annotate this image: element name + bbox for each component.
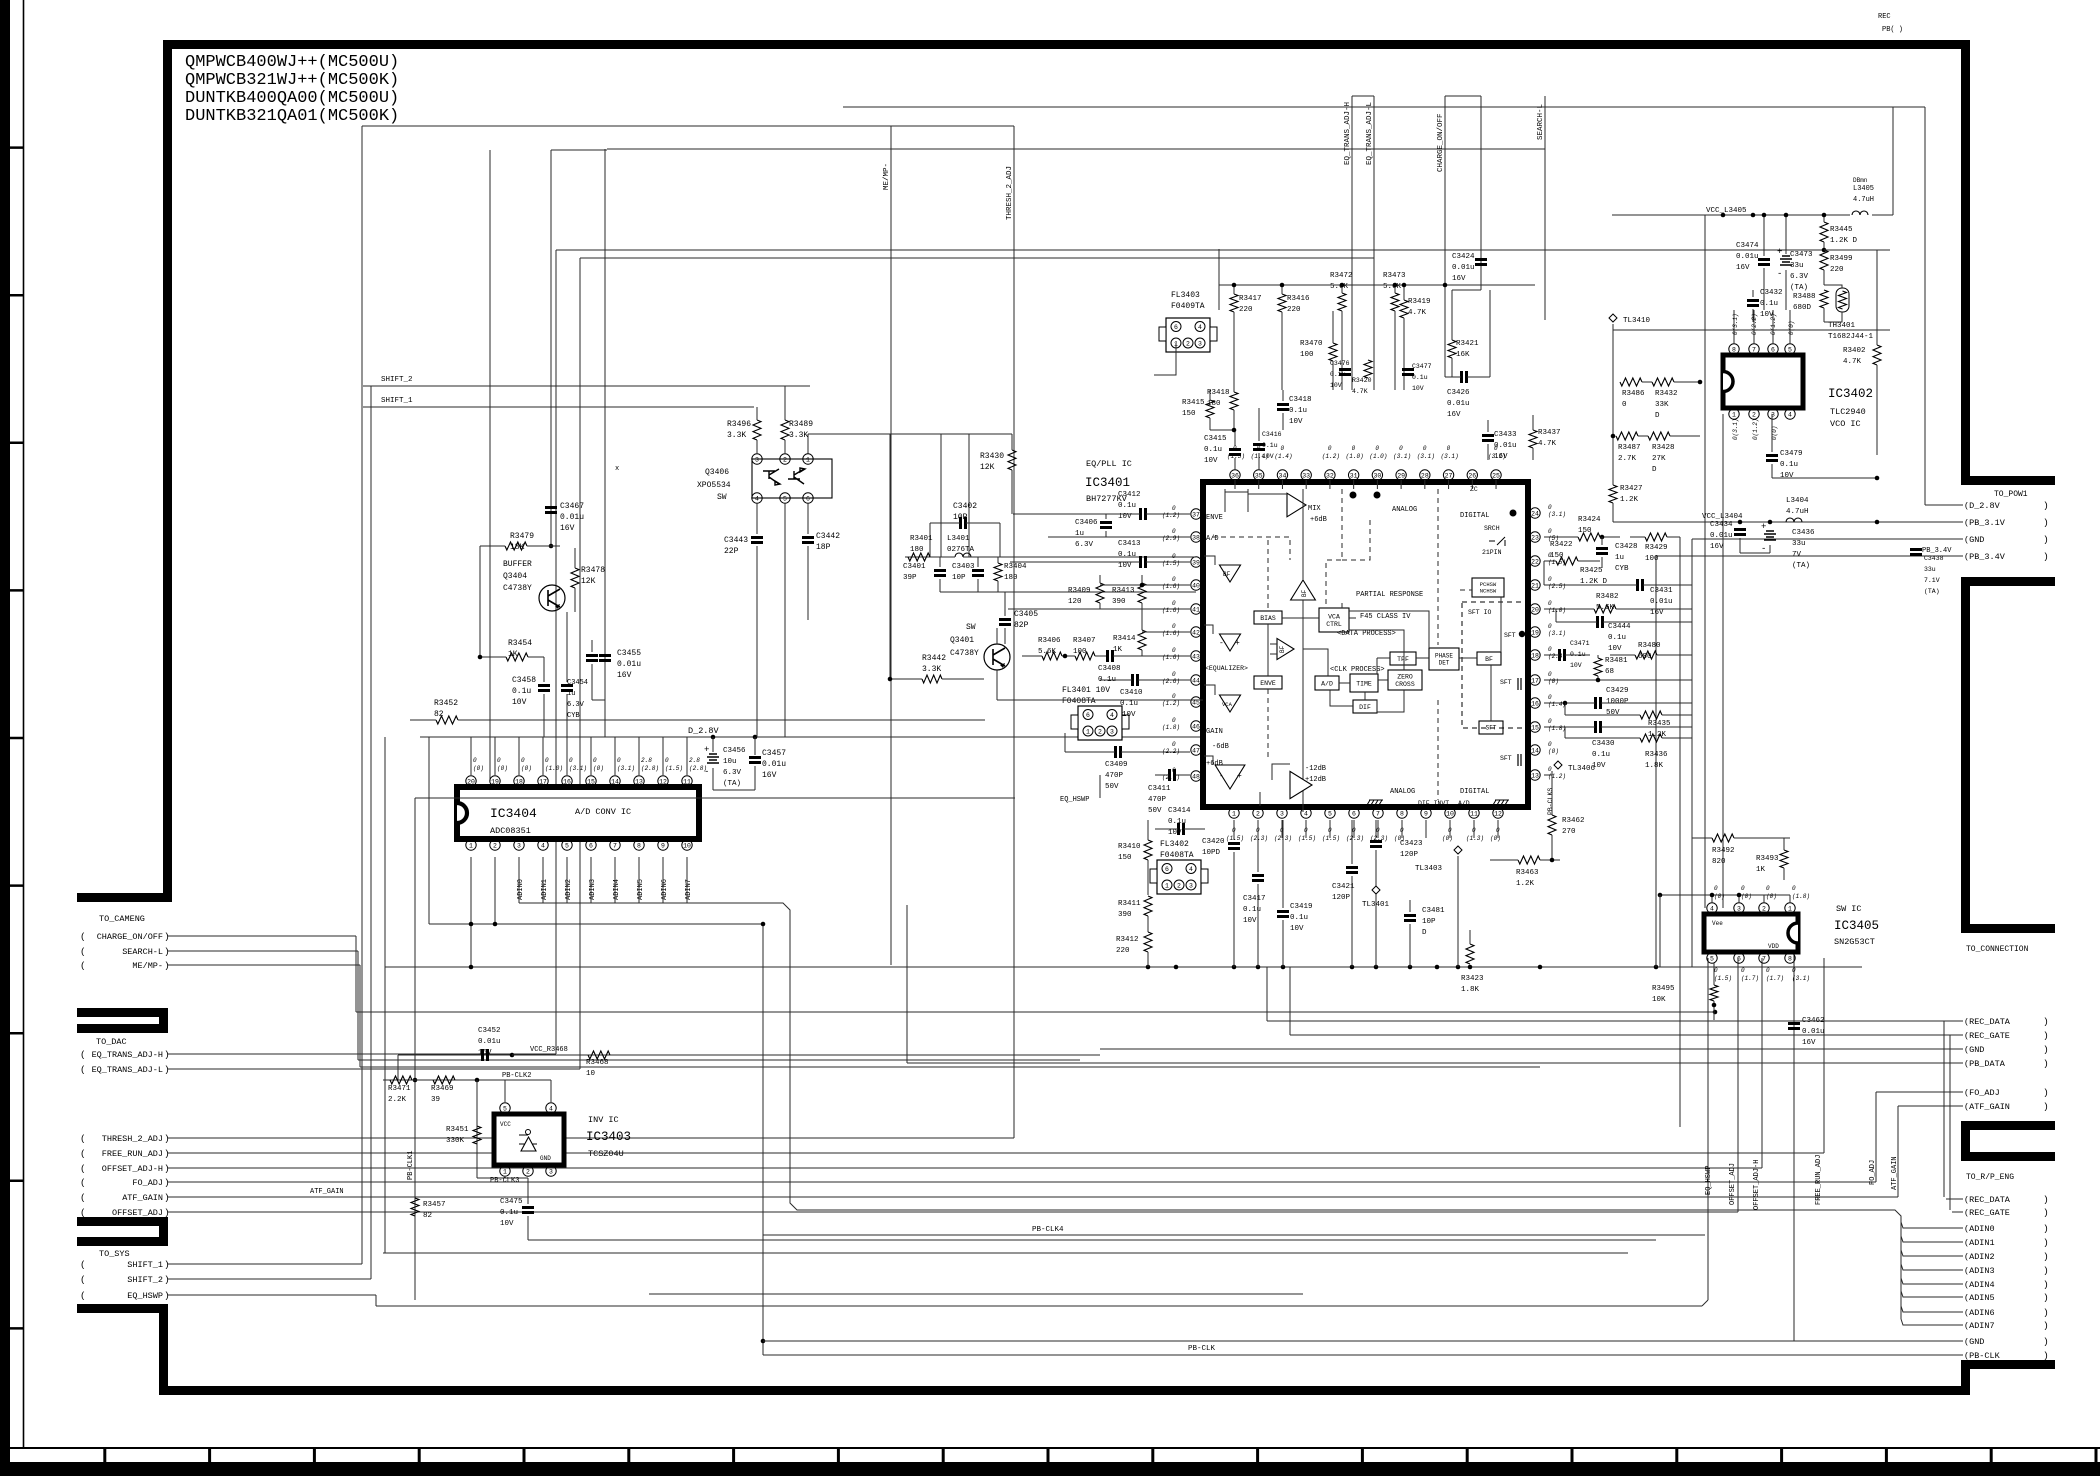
svg-text:SHIFT_1: SHIFT_1	[381, 397, 413, 405]
vertical SEARCH-L	[1544, 96, 1546, 320]
svg-text:16: 16	[563, 778, 571, 785]
svg-text:(PB-CLK: (PB-CLK	[1964, 1351, 2001, 1361]
resistor R3402	[1873, 345, 1881, 365]
svg-text:12: 12	[1494, 810, 1502, 817]
svg-text:10V: 10V	[1243, 917, 1257, 925]
svg-text:(PB_DATA: (PB_DATA	[1964, 1059, 2006, 1069]
svg-text:4: 4	[1189, 866, 1193, 873]
svg-text:0.01u: 0.01u	[1452, 264, 1475, 272]
svg-text:C3475: C3475	[500, 1198, 523, 1206]
svg-text:DIF INVT: DIF INVT	[1418, 800, 1449, 807]
svg-text:33u: 33u	[1790, 262, 1804, 270]
svg-text:16V: 16V	[1710, 543, 1724, 551]
svg-text:(0): (0)	[1490, 835, 1501, 842]
svg-text:DBmn: DBmn	[1853, 177, 1868, 184]
svg-text:): )	[2043, 1030, 2049, 1041]
svg-text:R3416: R3416	[1287, 295, 1310, 303]
capacitor C3409	[1116, 746, 1121, 758]
svg-text:180: 180	[1004, 574, 1018, 582]
IC3401 right pins 24..13	[1530, 508, 1540, 518]
resistor R3406	[1042, 652, 1062, 660]
svg-text:R3419: R3419	[1408, 298, 1431, 306]
loop wire y1060	[358, 1059, 1080, 1061]
svg-text:0: 0	[1172, 553, 1176, 560]
vertical CHARGE_ON/OFF	[1444, 96, 1446, 377]
svg-text:0.1u: 0.1u	[1330, 371, 1346, 378]
svg-text:SFT IO: SFT IO	[1468, 609, 1492, 616]
capacitor C3429	[1596, 697, 1601, 709]
svg-text:FL3403: FL3403	[1171, 291, 1200, 300]
svg-text:0(1.2): 0(1.2)	[1752, 418, 1759, 440]
svg-text:R3495: R3495	[1652, 985, 1675, 993]
wire SHIFT_1 top	[363, 406, 754, 408]
svg-text:0(1.2): 0(1.2)	[1770, 313, 1777, 335]
svg-text:ME/MP-: ME/MP-	[132, 961, 163, 971]
svg-text:0: 0	[1233, 445, 1237, 452]
svg-text:A/D: A/D	[1321, 680, 1333, 687]
resistor R3492	[1712, 834, 1734, 842]
svg-text:): )	[2043, 1016, 2049, 1027]
svg-text:5.6K: 5.6K	[1330, 283, 1349, 291]
svg-text:0: 0	[1172, 767, 1176, 774]
resistor R3454	[506, 653, 528, 661]
svg-text:44: 44	[1192, 677, 1200, 684]
svg-text:22: 22	[1531, 558, 1539, 565]
svg-text:0: 0	[593, 757, 597, 764]
svg-text:10: 10	[1446, 810, 1454, 817]
IC3403 pin wires	[504, 1080, 506, 1102]
svg-text:(2.5): (2.5)	[1548, 583, 1566, 590]
wire top run 3	[607, 148, 1545, 150]
svg-text:5: 5	[1710, 955, 1714, 962]
svg-text:0(0): 0(0)	[1788, 321, 1795, 335]
svg-text:C3462: C3462	[1802, 1017, 1825, 1025]
svg-text:ATF_GAIN: ATF_GAIN	[310, 1188, 344, 1196]
svg-text:220: 220	[1830, 266, 1844, 274]
svg-text:(1.5): (1.5)	[1548, 559, 1566, 566]
svg-text:CHARGE_ON/OFF: CHARGE_ON/OFF	[97, 932, 163, 942]
svg-text:0: 0	[1172, 600, 1176, 607]
svg-text:EQ_TRANS_ADJ-H: EQ_TRANS_ADJ-H	[1344, 102, 1352, 165]
svg-text:): )	[2043, 1101, 2049, 1112]
svg-text:(0): (0)	[1548, 748, 1559, 755]
svg-text:0: 0	[617, 757, 621, 764]
svg-text:50V: 50V	[1606, 709, 1620, 717]
resistor R3471	[390, 1076, 412, 1084]
capacitor C3458	[538, 686, 550, 691]
svg-text:R3425: R3425	[1580, 567, 1603, 575]
svg-text:16V: 16V	[560, 524, 575, 533]
svg-text:C3473: C3473	[1790, 251, 1813, 259]
svg-text:(1.0): (1.0)	[1369, 453, 1387, 460]
svg-text:(TA): (TA)	[723, 780, 741, 788]
svg-text:0: 0	[1172, 671, 1176, 678]
svg-text:IC3402: IC3402	[1828, 387, 1873, 401]
svg-text:7: 7	[1376, 810, 1380, 817]
svg-text:270: 270	[1562, 828, 1576, 836]
capacitor C3408	[1108, 650, 1113, 662]
svg-text:SW: SW	[966, 623, 976, 632]
svg-text:(1.8): (1.8)	[1792, 893, 1810, 900]
wire SHIFT_2 top	[363, 385, 810, 387]
vertical x605	[604, 149, 606, 737]
svg-text:2: 2	[783, 456, 787, 463]
svg-text:150: 150	[1118, 854, 1132, 862]
svg-text:R3432: R3432	[1655, 390, 1678, 398]
svg-text:R3423: R3423	[1461, 975, 1484, 983]
resistor R3486	[1620, 378, 1642, 386]
svg-text:0276TA: 0276TA	[947, 546, 975, 554]
svg-text:C3444: C3444	[1608, 623, 1631, 631]
resistor R3414	[1138, 630, 1146, 650]
svg-text:(: (	[80, 1192, 86, 1203]
svg-text:SFT: SFT	[1504, 632, 1516, 639]
right bay wires TO_CONNECTION	[1267, 1020, 1963, 1022]
main schematic frame	[163, 40, 2055, 485]
VCO IC IC3402	[1723, 355, 1803, 408]
svg-text:(1.0): (1.0)	[545, 765, 563, 772]
svg-text:0: 0	[1375, 445, 1379, 452]
svg-text:0.1u: 0.1u	[1120, 700, 1138, 708]
IC3401 top pins 36..25	[1230, 470, 1240, 480]
capacitor C3467	[545, 508, 557, 513]
wire long run y258	[580, 257, 1374, 259]
bottom ruler line	[0, 1447, 2100, 1449]
svg-text:0: 0	[1548, 623, 1552, 630]
svg-text:ADC08351: ADC08351	[490, 826, 531, 836]
svg-text:FL3402: FL3402	[1160, 840, 1189, 849]
svg-text:9: 9	[1424, 810, 1428, 817]
svg-text:(REC_DATA: (REC_DATA	[1964, 1017, 2011, 1027]
capacitor C3412	[1141, 508, 1146, 520]
svg-text:C3467: C3467	[560, 502, 584, 511]
svg-text:(1.5): (1.5)	[1322, 835, 1340, 842]
capacitor C3457	[749, 758, 761, 763]
capacitor C3444	[1598, 616, 1603, 628]
svg-text:5: 5	[783, 495, 787, 502]
capacitor C3406	[1100, 523, 1112, 528]
resistor R3424	[1578, 533, 1600, 541]
svg-text:2.7K: 2.7K	[1618, 455, 1637, 463]
svg-text:QMPWCB321WJ++(MC500K): QMPWCB321WJ++(MC500K)	[185, 71, 399, 90]
svg-text:(0): (0)	[1714, 893, 1725, 900]
svg-text:82: 82	[423, 1212, 432, 1220]
svg-text:PB-CLKS: PB-CLKS	[1547, 788, 1554, 815]
svg-text:C3408: C3408	[1098, 665, 1121, 673]
resistor R3401	[908, 553, 930, 561]
svg-text:C3477: C3477	[1412, 363, 1432, 370]
svg-text:(ADIN4: (ADIN4	[1964, 1280, 1995, 1290]
svg-text:(: (	[80, 1064, 86, 1075]
svg-text:3: 3	[1737, 905, 1741, 912]
svg-text:(2.3): (2.3)	[1274, 835, 1292, 842]
IC3401 internal A/D box	[1315, 676, 1339, 690]
capacitor C3426	[1462, 371, 1467, 383]
svg-text:0: 0	[1172, 647, 1176, 654]
capacitor C3434	[1734, 530, 1746, 535]
wire top run 1	[843, 106, 1925, 108]
svg-text:(1.2): (1.2)	[1548, 773, 1566, 780]
svg-text:SHIFT_1: SHIFT_1	[127, 1260, 163, 1270]
svg-text:6.3V: 6.3V	[1075, 541, 1094, 549]
svg-text:6: 6	[1737, 955, 1741, 962]
svg-text:0: 0	[1172, 528, 1176, 535]
svg-text:ATF_GAIN: ATF_GAIN	[1891, 1156, 1899, 1190]
svg-text:(2.8): (2.8)	[641, 765, 659, 772]
svg-text:C3412: C3412	[1118, 491, 1141, 499]
svg-text:VCA: VCA	[1222, 701, 1233, 708]
svg-text:THRESH_2_ADJ: THRESH_2_ADJ	[1006, 166, 1014, 220]
svg-text:IC3404: IC3404	[490, 806, 537, 821]
capacitor C3421	[1346, 868, 1358, 873]
resistor R3436	[1640, 734, 1662, 742]
svg-text:TO_CONNECTION: TO_CONNECTION	[1966, 945, 2029, 954]
svg-text:24: 24	[1531, 510, 1539, 517]
vertical x941	[940, 434, 942, 557]
capacitor C3476	[1339, 370, 1351, 375]
wire bay SEARCH-L	[168, 950, 358, 952]
svg-text:SHIFT_2: SHIFT_2	[127, 1275, 163, 1285]
svg-text:C3471: C3471	[1570, 640, 1590, 647]
inductor L3404	[1786, 518, 1802, 522]
resistor R3481	[1594, 658, 1602, 676]
svg-text:-: -	[704, 767, 709, 777]
capacitor C3433	[1482, 436, 1494, 441]
svg-text:12K: 12K	[980, 463, 995, 472]
svg-text:2.8: 2.8	[689, 757, 700, 764]
capacitor C3418	[1277, 405, 1289, 410]
svg-text:0: 0	[1548, 646, 1552, 653]
svg-text:0.1u: 0.1u	[500, 1209, 518, 1217]
GND route from IC3404	[762, 924, 764, 1355]
svg-text:23: 23	[1531, 534, 1539, 541]
svg-text:+: +	[1235, 639, 1240, 648]
svg-text:0(0): 0(0)	[1771, 426, 1778, 440]
left margin scale line	[23, 0, 25, 1448]
svg-text:(0): (0)	[1394, 835, 1405, 842]
svg-text:120: 120	[1068, 598, 1082, 606]
svg-text:22P: 22P	[724, 547, 739, 556]
svg-text:(PB_3.1V: (PB_3.1V	[1964, 518, 2006, 528]
svg-text:DUNTKB321QA01(MC500K): DUNTKB321QA01(MC500K)	[185, 107, 399, 126]
wire VCC_L3405 rail	[1612, 214, 1850, 216]
capacitor C3462	[1788, 1024, 1800, 1029]
svg-text:R3430: R3430	[980, 452, 1004, 461]
svg-text:-: -	[1219, 639, 1224, 648]
svg-text:4.7K: 4.7K	[1408, 309, 1427, 317]
svg-text:SFT: SFT	[1500, 755, 1512, 762]
svg-text:120P: 120P	[1332, 894, 1351, 902]
svg-text:ADIN4: ADIN4	[613, 879, 621, 900]
svg-text:): )	[2043, 1336, 2049, 1347]
transistor pack Q3406	[752, 459, 832, 498]
bottom bus y967	[385, 966, 1862, 968]
transistor Q3404	[539, 585, 565, 611]
IC3404 top pins 20..11	[466, 776, 476, 786]
bottom loop y1253	[383, 1252, 1628, 1254]
svg-text:(1.5): (1.5)	[1714, 975, 1732, 982]
svg-text:(: (	[80, 1259, 86, 1270]
svg-text:16K: 16K	[1456, 351, 1470, 359]
svg-text:6.3V: 6.3V	[1790, 273, 1809, 281]
svg-text:1K: 1K	[1756, 866, 1766, 874]
svg-text:0: 0	[1494, 445, 1498, 452]
svg-text:C3402: C3402	[953, 502, 977, 511]
capacitor C3454	[561, 686, 573, 691]
IC3401 internal mix amp	[1287, 493, 1306, 517]
svg-text:0.1u: 0.1u	[1262, 442, 1278, 449]
svg-text:18K: 18K	[510, 543, 525, 552]
svg-text:TL3410: TL3410	[1623, 317, 1651, 325]
wire top rail 285	[1219, 284, 1535, 286]
IC3401 internal TFF box	[1390, 652, 1416, 665]
svg-text:): )	[2043, 1237, 2049, 1248]
capacitor C3419	[1277, 912, 1289, 917]
svg-text:C3431: C3431	[1650, 587, 1673, 595]
svg-text:(0): (0)	[1766, 893, 1777, 900]
svg-text:C3429: C3429	[1606, 687, 1629, 695]
svg-text:R3404: R3404	[1004, 563, 1027, 571]
svg-text:(2.3): (2.3)	[1370, 835, 1388, 842]
svg-text:34: 34	[1279, 472, 1287, 479]
svg-text:+: +	[1777, 247, 1782, 257]
svg-text:0: 0	[1548, 576, 1552, 583]
resistor R3495	[1710, 985, 1718, 1001]
svg-text:0(3.1): 0(3.1)	[1732, 313, 1739, 335]
svg-text:(1.5): (1.5)	[1298, 835, 1316, 842]
svg-text:31: 31	[1350, 472, 1358, 479]
svg-text:(1.5): (1.5)	[1162, 560, 1180, 567]
svg-text:EQ_HSWP: EQ_HSWP	[1060, 796, 1089, 804]
svg-text:4: 4	[1788, 411, 1792, 418]
svg-text:0.1u: 0.1u	[1760, 300, 1778, 308]
svg-text:220: 220	[1239, 306, 1253, 314]
wire bay OFFSET_ADJ	[168, 1211, 1738, 1213]
svg-text:390: 390	[1112, 598, 1126, 606]
capacitor C3424	[1475, 260, 1487, 265]
resistor R3421	[1448, 340, 1456, 358]
svg-text:BF: BF	[1485, 656, 1493, 663]
svg-text:): )	[2043, 1320, 2049, 1331]
svg-text:(1.6): (1.6)	[1162, 607, 1180, 614]
svg-text:R3445: R3445	[1830, 226, 1853, 234]
svg-text:0: 0	[497, 757, 501, 764]
resistor R3427	[1609, 485, 1617, 503]
svg-text:D_2.8V: D_2.8V	[688, 726, 720, 736]
svg-text:180: 180	[1207, 400, 1221, 408]
svg-text:C3474: C3474	[1736, 242, 1759, 250]
svg-text:C4738Y: C4738Y	[503, 584, 532, 593]
svg-text:5.6K: 5.6K	[1596, 604, 1615, 612]
vertical x490 top	[489, 150, 491, 781]
svg-text:PB( ): PB( )	[1882, 26, 1903, 34]
svg-text:(1.0): (1.0)	[1548, 607, 1566, 614]
svg-text:(0): (0)	[1741, 893, 1752, 900]
svg-text:390: 390	[1118, 911, 1132, 919]
resistor R3452	[436, 716, 458, 724]
svg-text:A/D CONV IC: A/D CONV IC	[575, 807, 631, 817]
svg-text:0: 0	[1548, 741, 1552, 748]
svg-text:): )	[2043, 1251, 2049, 1262]
svg-text:(ADIN2: (ADIN2	[1964, 1252, 1995, 1262]
capacitor C3405	[999, 620, 1011, 625]
svg-text:C3426: C3426	[1447, 389, 1470, 397]
svg-text:15: 15	[587, 778, 595, 785]
svg-text:6: 6	[1174, 324, 1178, 331]
svg-text:8: 8	[1788, 955, 1792, 962]
svg-text:C3403: C3403	[952, 563, 975, 571]
svg-text:17: 17	[539, 778, 547, 785]
svg-text:(GND: (GND	[1964, 535, 1984, 545]
svg-text:0: 0	[1172, 576, 1176, 583]
svg-text:NCHSW: NCHSW	[1480, 588, 1497, 595]
svg-text:F0408TA: F0408TA	[1062, 697, 1096, 706]
svg-text:(REC_DATA: (REC_DATA	[1964, 1195, 2011, 1205]
svg-text:BF: BF	[1301, 589, 1308, 597]
svg-text:14: 14	[1531, 747, 1539, 754]
capacitor C3479	[1766, 456, 1778, 461]
svg-text:TO_DAC: TO_DAC	[96, 1037, 127, 1047]
svg-text:5: 5	[565, 842, 569, 849]
capacitor C3442	[802, 538, 814, 543]
svg-text:DUNTKB400QA00(MC500U): DUNTKB400QA00(MC500U)	[185, 89, 399, 108]
svg-text:20: 20	[467, 778, 475, 785]
svg-text:R3424: R3424	[1578, 516, 1601, 524]
svg-text:9: 9	[661, 842, 665, 849]
capacitor C3430	[1596, 721, 1601, 733]
svg-text:TL3406: TL3406	[1568, 765, 1596, 773]
svg-text:R3415: R3415	[1182, 399, 1205, 407]
capacitor C3481	[1404, 916, 1416, 921]
IC3404 top pin wires	[470, 737, 472, 775]
svg-text:10V: 10V	[1204, 457, 1218, 465]
svg-text:(TA): (TA)	[1924, 588, 1940, 595]
svg-text:CHARGE_ON/OFF: CHARGE_ON/OFF	[1437, 113, 1445, 172]
svg-text:6.3V: 6.3V	[567, 701, 585, 709]
svg-text:150: 150	[1182, 410, 1196, 418]
svg-text:C4738Y: C4738Y	[950, 649, 979, 658]
svg-text:(ADIN0: (ADIN0	[1964, 1224, 1995, 1234]
svg-text:0.01u: 0.01u	[1650, 598, 1673, 606]
svg-text:3: 3	[549, 1168, 553, 1175]
svg-text:VCC_L3404: VCC_L3404	[1702, 513, 1743, 521]
svg-text:0(2.2): 0(2.2)	[1751, 313, 1758, 335]
svg-text:(2.3): (2.3)	[1250, 835, 1268, 842]
svg-text:CYB: CYB	[1615, 565, 1629, 573]
svg-text:21: 21	[1531, 582, 1539, 589]
resistor R3463	[1518, 856, 1540, 864]
IC3401 internal ZERO CROSS box	[1388, 670, 1422, 690]
capacitor C3432	[1747, 301, 1759, 306]
svg-text:0: 0	[1548, 671, 1552, 678]
svg-text:10PD: 10PD	[1202, 849, 1221, 857]
svg-text:GND: GND	[540, 1155, 551, 1162]
svg-text:48: 48	[1192, 773, 1200, 780]
wire bay SHIFT_2	[168, 1278, 371, 1280]
svg-text:10V: 10V	[1330, 382, 1342, 389]
svg-text:BIAS: BIAS	[1260, 615, 1276, 622]
svg-text:C3481: C3481	[1422, 907, 1445, 915]
wire bay CHARGE_ON/OFF	[168, 935, 356, 937]
svg-text:40: 40	[1192, 582, 1200, 589]
svg-text:(: (	[80, 1274, 86, 1285]
resistor R3428b	[1648, 432, 1670, 440]
svg-text:2.8: 2.8	[641, 757, 652, 764]
resistor R3470	[1329, 343, 1337, 361]
svg-text:C3432: C3432	[1760, 289, 1783, 297]
PB-CLK3 wire	[477, 1177, 528, 1179]
svg-text:R3479: R3479	[510, 532, 534, 541]
